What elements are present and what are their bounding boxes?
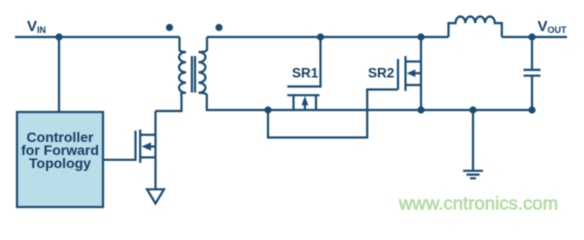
transistor SR2 body arrow xyxy=(415,72,422,74)
node SR2 drain junction xyxy=(417,33,424,40)
transistor SR1 gate xyxy=(287,37,320,87)
svg-text:www.cntronics.com: www.cntronics.com xyxy=(398,193,558,214)
node ground junction xyxy=(469,106,476,113)
node T1 primary phase dot xyxy=(166,24,173,31)
node SR2 source junction xyxy=(417,106,424,113)
transistor SR1 channel xyxy=(287,94,319,96)
node secondary lower junction xyxy=(264,106,271,113)
node VIN junction xyxy=(55,33,62,40)
transistor SR2 gate plate xyxy=(397,59,399,90)
wire VOUT down to capacitor xyxy=(531,37,533,70)
inductor L1 xyxy=(449,16,502,37)
node T1 secondary phase dot xyxy=(215,24,222,31)
wire VIN node down to controller xyxy=(58,37,60,112)
svg-text:SR2: SR2 xyxy=(368,66,394,81)
transistor SR1 left stub xyxy=(292,95,294,110)
capacitor C1 xyxy=(524,70,541,76)
transistor Q1 body arrow xyxy=(150,145,156,147)
svg-text:Topology: Topology xyxy=(29,155,91,171)
wire inductor to VOUT xyxy=(502,36,567,38)
ground primary triangle xyxy=(147,189,164,203)
svg-text:VIN: VIN xyxy=(27,18,46,35)
transformer T1 core xyxy=(192,56,195,93)
transistor Q1 source stub xyxy=(140,156,155,158)
svg-text:SR1: SR1 xyxy=(292,66,319,81)
transformer T1 secondary winding xyxy=(199,37,533,110)
wire secondary top bus xyxy=(207,36,449,38)
transistor Q1 gate xyxy=(103,131,136,160)
wire SR2 gate drive route xyxy=(268,90,398,138)
transformer T1 primary winding xyxy=(156,37,187,111)
node VOUT junction xyxy=(528,33,535,40)
transistor SR2 channel xyxy=(404,56,406,91)
controller U1 box xyxy=(17,112,103,207)
transistor SR1 right stub xyxy=(315,95,317,110)
transistor Q1 channel xyxy=(139,130,141,163)
node capacitor bottom junction xyxy=(528,106,535,113)
transistor Q1 drain stub xyxy=(140,134,155,136)
wire Q1 drain-source lead xyxy=(154,111,156,189)
transistor SR2 drain stub xyxy=(406,60,422,62)
transistor SR2 source stub xyxy=(406,84,422,86)
transistor SR1 body arrow xyxy=(304,105,306,111)
wire SR2 drain-source lead xyxy=(420,37,422,110)
wire capacitor to bottom bus xyxy=(531,76,533,110)
node SR1 gate junction xyxy=(317,33,324,40)
ground secondary earth symbol xyxy=(463,110,483,178)
svg-text:VOUT: VOUT xyxy=(538,18,568,35)
wire VIN top bus to transformer primary xyxy=(15,36,180,38)
